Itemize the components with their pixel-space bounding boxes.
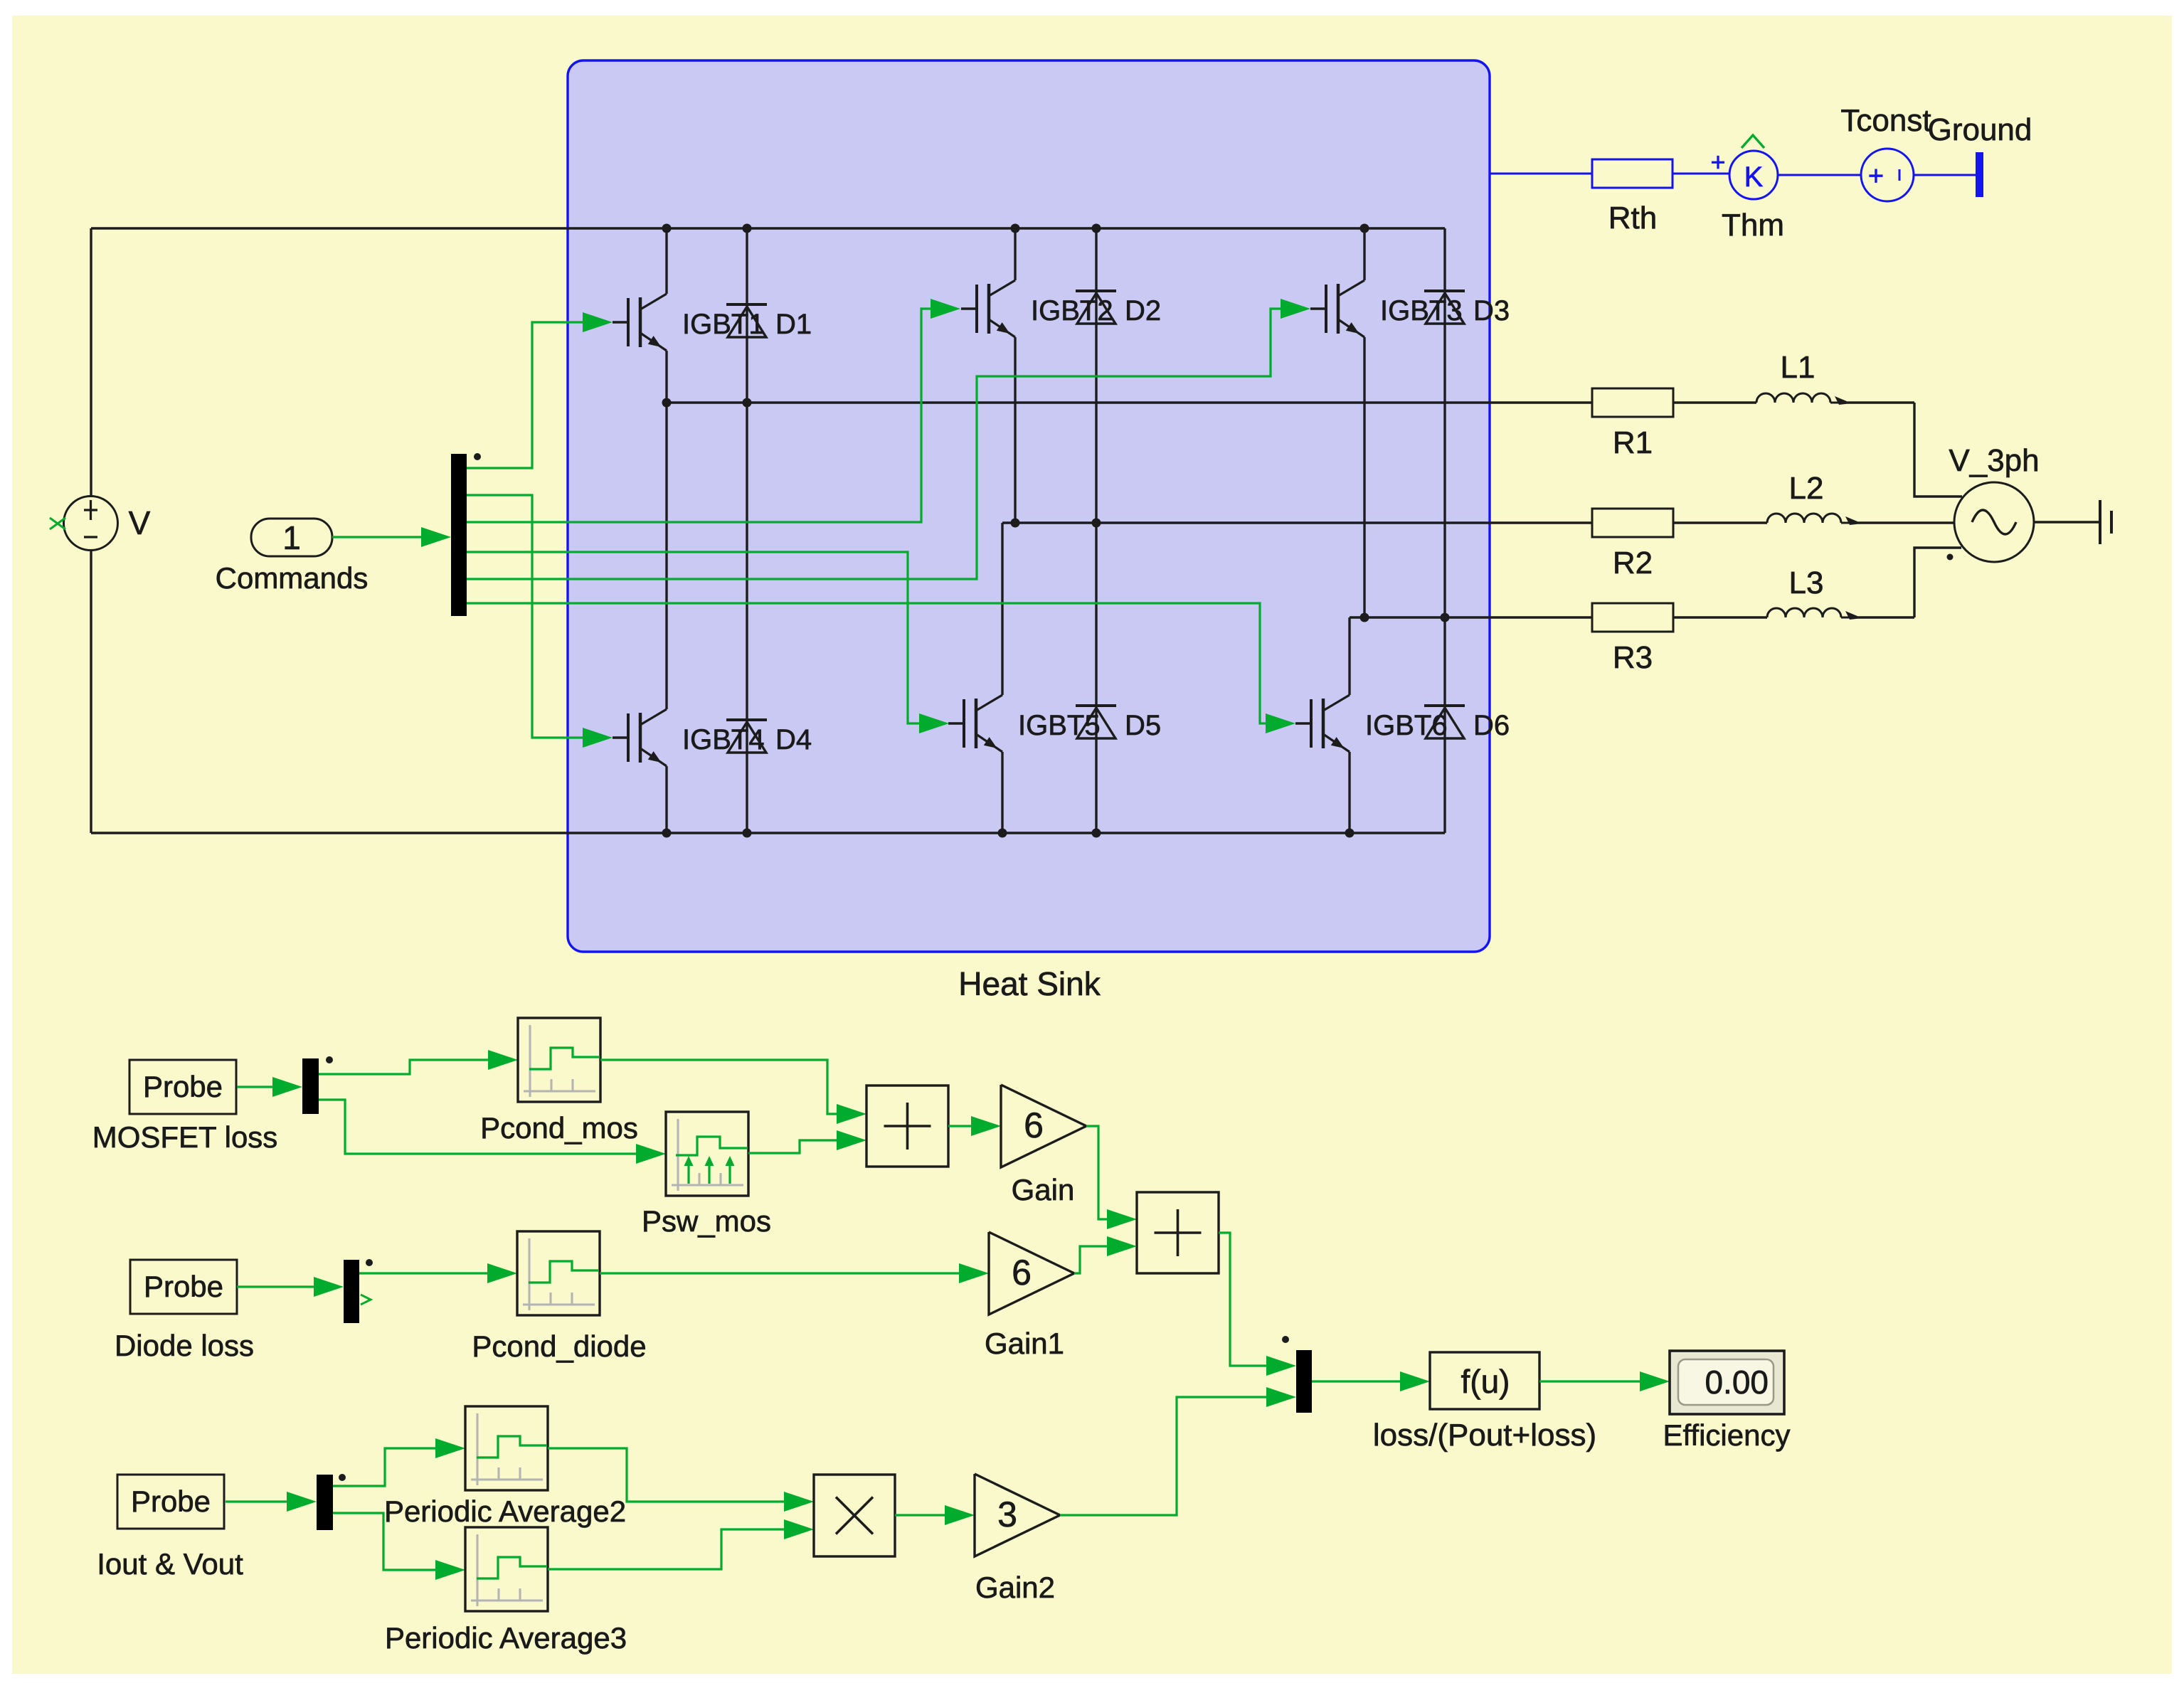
svg-text:Iout & Vout: Iout & Vout xyxy=(97,1547,243,1581)
svg-text:Tconst: Tconst xyxy=(1840,103,1931,138)
svg-text:D1: D1 xyxy=(775,309,812,340)
svg-text:Periodic Average3: Periodic Average3 xyxy=(385,1621,627,1655)
svg-text:K: K xyxy=(1744,161,1764,193)
svg-text:D5: D5 xyxy=(1125,710,1161,741)
svg-text:0.00: 0.00 xyxy=(1705,1364,1769,1401)
svg-text:L1: L1 xyxy=(1781,350,1815,385)
svg-text:L2: L2 xyxy=(1789,471,1824,506)
svg-text:D2: D2 xyxy=(1125,295,1161,327)
svg-text:R1: R1 xyxy=(1613,425,1653,460)
svg-text:Gain: Gain xyxy=(1012,1173,1075,1206)
svg-text:Ground: Ground xyxy=(1928,112,2032,147)
svg-text:Probe: Probe xyxy=(131,1485,211,1518)
svg-text:L3: L3 xyxy=(1789,566,1824,600)
svg-text:Periodic Average2: Periodic Average2 xyxy=(384,1495,626,1528)
svg-text:Commands: Commands xyxy=(216,561,369,595)
svg-text:f(u): f(u) xyxy=(1461,1363,1510,1400)
svg-text:+: + xyxy=(1868,161,1884,191)
svg-text:+: + xyxy=(1710,147,1725,176)
svg-text:IGBT1: IGBT1 xyxy=(682,309,765,340)
svg-text:IGBT3: IGBT3 xyxy=(1380,295,1463,327)
svg-text:IGBT5: IGBT5 xyxy=(1018,710,1101,741)
svg-text:IGBT4: IGBT4 xyxy=(682,724,765,755)
svg-text:Gain1: Gain1 xyxy=(985,1327,1064,1360)
svg-text:Rth: Rth xyxy=(1608,201,1657,235)
svg-text:Diode loss: Diode loss xyxy=(115,1329,254,1362)
svg-text:D3: D3 xyxy=(1473,295,1510,327)
svg-text:Thm: Thm xyxy=(1722,208,1784,243)
svg-text:R2: R2 xyxy=(1613,546,1653,580)
svg-text:Heat Sink: Heat Sink xyxy=(958,965,1101,1002)
svg-text:R3: R3 xyxy=(1613,640,1653,675)
svg-text:6: 6 xyxy=(1024,1105,1044,1145)
svg-text:Pcond_mos: Pcond_mos xyxy=(480,1111,638,1145)
svg-text:MOSFET loss: MOSFET loss xyxy=(92,1120,278,1154)
svg-text:Pcond_diode: Pcond_diode xyxy=(472,1329,646,1363)
svg-text:D6: D6 xyxy=(1473,710,1510,741)
svg-text:Efficiency: Efficiency xyxy=(1663,1418,1791,1452)
svg-text:V_3ph: V_3ph xyxy=(1949,443,2039,478)
svg-text:loss/(Pout+loss): loss/(Pout+loss) xyxy=(1373,1418,1596,1453)
svg-text:D4: D4 xyxy=(775,724,812,755)
svg-text:V: V xyxy=(129,504,151,541)
svg-text:Probe: Probe xyxy=(143,1070,223,1103)
svg-text:1: 1 xyxy=(282,519,301,556)
svg-text:3: 3 xyxy=(997,1495,1017,1534)
svg-text:IGBT6: IGBT6 xyxy=(1365,710,1448,741)
svg-text:6: 6 xyxy=(1012,1253,1032,1292)
svg-text:IGBT2: IGBT2 xyxy=(1031,295,1113,327)
svg-text:Psw_mos: Psw_mos xyxy=(642,1204,771,1238)
svg-text:Gain2: Gain2 xyxy=(975,1571,1055,1604)
svg-text:Probe: Probe xyxy=(144,1270,223,1303)
